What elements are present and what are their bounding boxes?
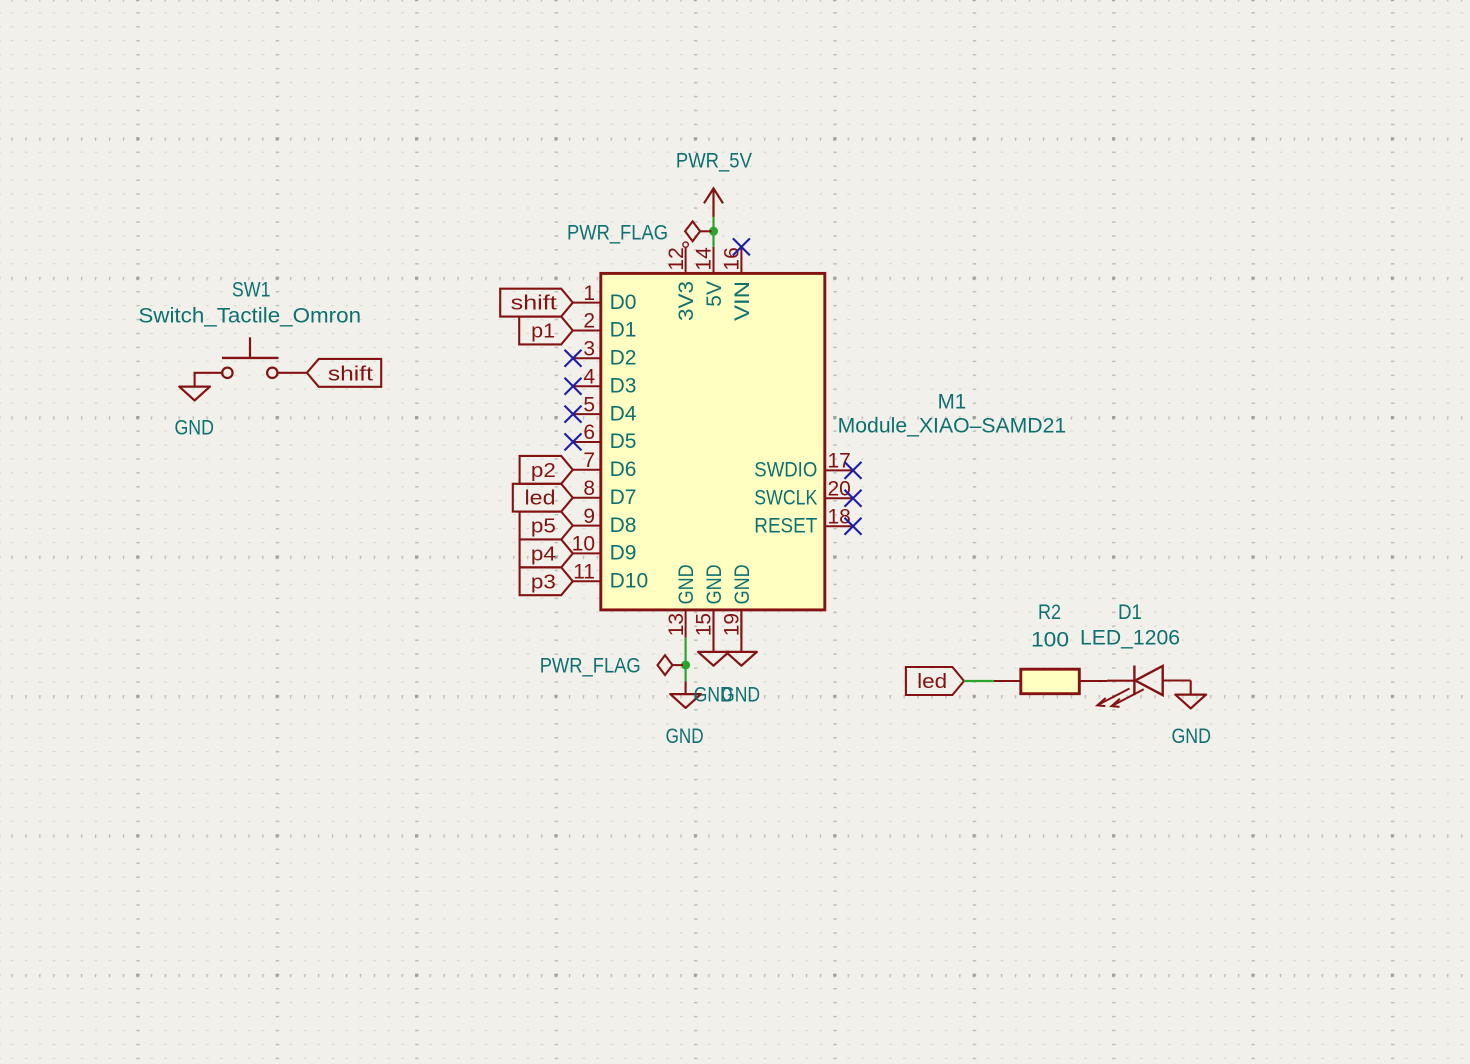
reference D1 <box>1118 601 1142 624</box>
switch SW1 <box>222 337 279 378</box>
svg-text:SWDIO: SWDIO <box>754 459 817 482</box>
M1 pin 10 (D9) <box>572 533 637 565</box>
svg-text:9: 9 <box>583 505 595 528</box>
svg-text:PWR_FLAG: PWR_FLAG <box>540 654 641 677</box>
svg-text:p5: p5 <box>531 516 556 538</box>
svg-text:D7: D7 <box>610 486 637 509</box>
no-connect pin 20 <box>845 490 862 507</box>
M1 pin 1 (D0) <box>573 282 636 314</box>
global label p3 <box>520 567 573 595</box>
svg-text:14: 14 <box>693 247 716 271</box>
reference R2 <box>1038 601 1061 624</box>
M1 pin 8 (D7) <box>573 477 636 509</box>
no-connect pin 5 <box>565 406 582 423</box>
svg-text:RESET: RESET <box>754 514 817 537</box>
svg-text:M1: M1 <box>938 391 967 414</box>
wire 5V <box>712 217 714 247</box>
label PWR_FLAG (bottom) <box>540 654 641 677</box>
svg-text:D5: D5 <box>610 430 637 453</box>
global label p1 <box>519 317 573 345</box>
M1 pin 14 (5V) <box>693 247 726 307</box>
junction <box>709 227 718 236</box>
svg-text:17: 17 <box>828 450 851 473</box>
M1 pin 9 (D8) <box>573 505 636 537</box>
LED D1 <box>1097 666 1190 707</box>
no-connect pin 6 <box>565 433 582 450</box>
no-connect pin 3 <box>565 350 582 367</box>
no-connect pin 18 <box>845 518 862 535</box>
svg-text:13: 13 <box>665 613 688 636</box>
svg-text:1: 1 <box>583 282 595 305</box>
global label led <box>513 484 573 512</box>
svg-text:D2: D2 <box>610 347 637 370</box>
svg-text:18: 18 <box>828 505 851 528</box>
svg-text:led: led <box>525 488 556 510</box>
svg-text:D9: D9 <box>610 542 637 565</box>
svg-text:D1: D1 <box>1118 601 1142 624</box>
global label p4 <box>520 539 573 567</box>
M1 pin 12 (3V3) <box>665 247 698 321</box>
svg-text:shift: shift <box>511 293 558 315</box>
svg-text:4: 4 <box>583 365 595 388</box>
svg-text:SWCLK: SWCLK <box>754 487 817 510</box>
svg-text:GND: GND <box>721 683 760 706</box>
svg-text:SW1: SW1 <box>232 279 271 302</box>
M1 pin 18 (RESET) <box>754 505 853 537</box>
M1 pin 11 (D10) <box>573 561 648 593</box>
M1 pin 15 (GND) <box>693 564 726 637</box>
svg-text:5: 5 <box>583 393 595 416</box>
svg-text:p3: p3 <box>531 571 556 593</box>
value Switch_Tactile_Omron <box>138 304 361 327</box>
svg-text:D4: D4 <box>610 402 637 425</box>
svg-text:3: 3 <box>583 338 595 361</box>
ground GND (pin 13) <box>670 681 701 708</box>
reference SW1 <box>232 279 271 302</box>
svg-text:shift: shift <box>328 363 374 385</box>
svg-text:p4: p4 <box>531 543 556 565</box>
M1 pin 7 (D6) <box>573 449 636 481</box>
M1 pin 19 (GND) <box>721 564 754 637</box>
svg-text:GND: GND <box>666 725 704 748</box>
value Module_XIAO-SAMD21 <box>838 415 1067 438</box>
no-connect pin 17 <box>845 462 862 479</box>
power symbol PWR_5V <box>704 188 723 217</box>
ground GND (pin 19) <box>726 610 757 666</box>
label GND (pin 19) <box>721 683 760 706</box>
ground GND (pin 15) <box>698 610 729 666</box>
wire GND (pin 13) <box>684 638 686 681</box>
no-connect pin 16 <box>733 238 750 255</box>
svg-text:100: 100 <box>1031 628 1069 651</box>
M1 pin 5 (D4) <box>573 393 637 425</box>
svg-text:GND: GND <box>675 564 698 604</box>
junction (bottom) <box>681 661 690 670</box>
resistor R2 <box>994 669 1107 694</box>
M1 pin 20 (SWCLK) <box>754 478 853 510</box>
svg-text:12: 12 <box>665 247 688 270</box>
reference M1 <box>938 391 967 414</box>
wire R2 to D1 <box>1107 680 1134 682</box>
svg-text:D3: D3 <box>610 374 637 397</box>
svg-text:15: 15 <box>693 613 716 636</box>
svg-text:GND: GND <box>731 564 754 604</box>
global label p2 <box>520 456 573 484</box>
svg-text:PWR_FLAG: PWR_FLAG <box>567 221 668 244</box>
ground (D1) <box>1175 695 1206 709</box>
svg-text:GND: GND <box>174 416 214 439</box>
label GND (pin 15) <box>694 683 733 706</box>
svg-text:11: 11 <box>573 561 595 584</box>
label GND (switch) <box>174 416 214 439</box>
global label shift (switch) <box>307 359 381 387</box>
module M1 body <box>601 273 825 610</box>
svg-text:D8: D8 <box>610 514 637 537</box>
svg-text:Switch_Tactile_Omron: Switch_Tactile_Omron <box>138 304 361 327</box>
svg-text:8: 8 <box>583 477 595 500</box>
svg-text:3V3: 3V3 <box>675 281 698 321</box>
svg-text:20: 20 <box>828 478 851 501</box>
svg-text:D0: D0 <box>610 291 637 314</box>
ground (switch) <box>179 387 210 401</box>
M1 pin 4 (D3) <box>573 365 636 397</box>
global label shift <box>500 289 573 317</box>
no-connect pin 4 <box>565 378 582 395</box>
label PWR_FLAG (top) <box>567 221 668 244</box>
svg-text:led: led <box>917 671 947 693</box>
wire D1 to GND <box>1190 681 1192 695</box>
M1 pin 2 (D1) <box>573 310 636 342</box>
svg-text:D1: D1 <box>610 319 637 342</box>
label PWR_5V <box>676 150 752 173</box>
svg-text:p1: p1 <box>531 321 555 343</box>
wire led <box>964 680 994 682</box>
label GND (D1) <box>1171 725 1211 748</box>
svg-text:16: 16 <box>721 247 744 270</box>
svg-text:p2: p2 <box>531 460 556 482</box>
svg-text:5V: 5V <box>703 281 726 307</box>
power flag PWR_FLAG (bottom) <box>658 655 684 675</box>
value LED_1206 <box>1080 627 1180 650</box>
power flag PWR_FLAG (top) <box>685 221 711 241</box>
wire switch to shift <box>278 372 307 374</box>
M1 pin 3 (D2) <box>573 338 636 370</box>
svg-text:D6: D6 <box>610 458 637 481</box>
wire switch to GND <box>195 373 222 387</box>
M1 pin 16 (VIN) <box>721 247 754 321</box>
M1 pin 17 (SWDIO) <box>754 450 853 482</box>
svg-text:VIN: VIN <box>731 281 754 321</box>
svg-text:2: 2 <box>583 310 595 333</box>
svg-text:R2: R2 <box>1038 601 1061 624</box>
M1 pin 13 (GND) <box>665 564 698 637</box>
M1 pin 6 (D5) <box>573 421 636 453</box>
svg-text:Module_XIAO–SAMD21: Module_XIAO–SAMD21 <box>838 415 1067 438</box>
label GND (pin 13) <box>666 725 704 748</box>
svg-text:GND: GND <box>1171 725 1211 748</box>
svg-text:19: 19 <box>721 613 744 636</box>
svg-text:7: 7 <box>583 449 595 472</box>
value 100 <box>1031 628 1069 651</box>
svg-text:6: 6 <box>583 421 595 444</box>
global label led (net) <box>906 667 964 695</box>
global label p5 <box>520 512 573 540</box>
svg-text:GND: GND <box>703 564 726 604</box>
svg-text:10: 10 <box>572 533 595 556</box>
svg-text:LED_1206: LED_1206 <box>1080 627 1180 650</box>
svg-text:PWR_5V: PWR_5V <box>676 150 752 173</box>
unconnected end pin 12 <box>683 242 688 247</box>
svg-text:D10: D10 <box>610 570 649 593</box>
